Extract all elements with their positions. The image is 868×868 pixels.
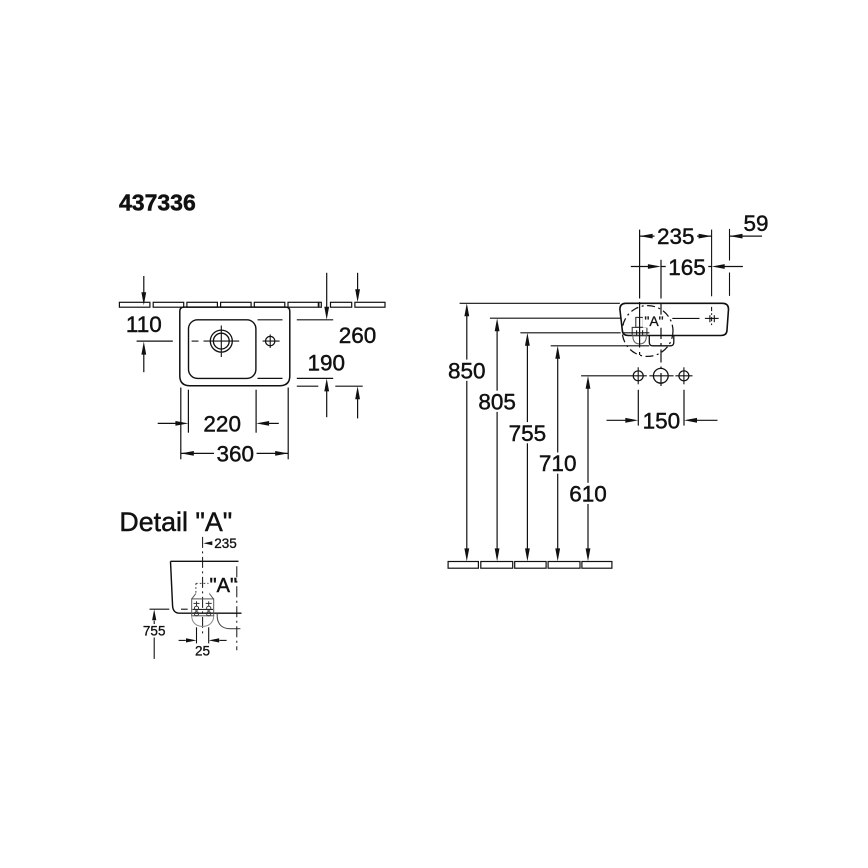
- svg-text:360: 360: [217, 441, 255, 466]
- svg-text:165: 165: [668, 255, 706, 280]
- svg-text:"A": "A": [644, 313, 663, 329]
- svg-text:235: 235: [657, 224, 695, 249]
- svg-text:59: 59: [743, 211, 768, 236]
- svg-text:755: 755: [143, 623, 166, 638]
- svg-text:755: 755: [509, 421, 547, 446]
- svg-text:610: 610: [569, 482, 607, 507]
- svg-text:710: 710: [539, 451, 577, 476]
- svg-text:260: 260: [339, 323, 377, 348]
- svg-text:110: 110: [126, 312, 162, 337]
- svg-text:25: 25: [195, 643, 210, 658]
- svg-text:"A": "A": [210, 575, 238, 597]
- svg-text:850: 850: [448, 358, 486, 383]
- svg-text:150: 150: [643, 408, 681, 433]
- svg-text:805: 805: [478, 389, 516, 414]
- svg-text:235: 235: [214, 536, 237, 551]
- svg-text:437336: 437336: [119, 189, 196, 215]
- svg-text:220: 220: [203, 411, 241, 436]
- svg-text:Detail "A": Detail "A": [119, 507, 232, 537]
- svg-text:190: 190: [308, 351, 346, 376]
